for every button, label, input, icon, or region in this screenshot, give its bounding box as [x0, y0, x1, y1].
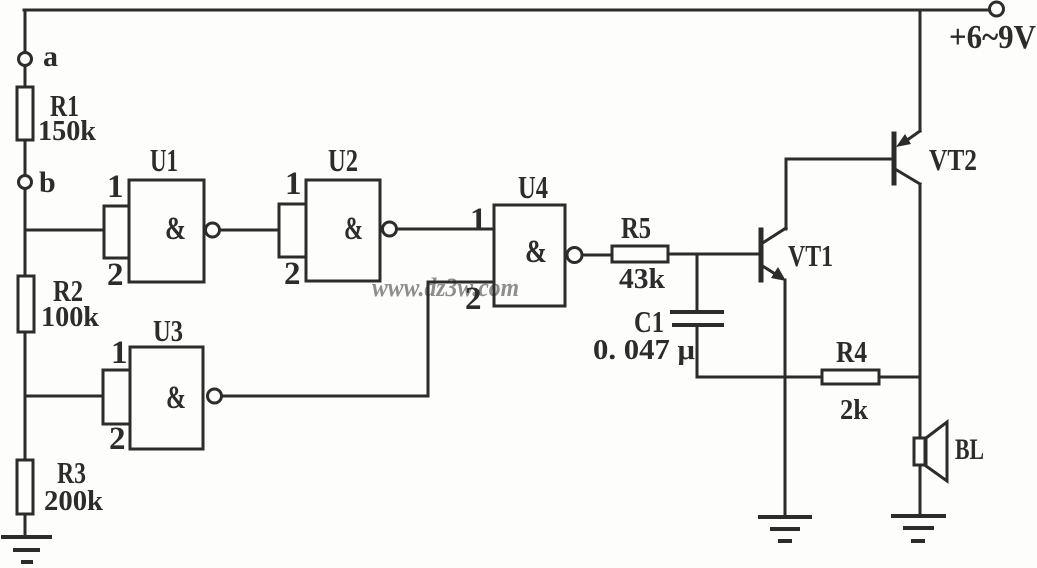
wire R5 to VT1 base: [668, 253, 759, 256]
gate U3 input block: [103, 370, 130, 424]
svg-text:&: &: [344, 211, 363, 247]
svg-text:2: 2: [109, 421, 126, 457]
svg-text:b: b: [39, 166, 56, 199]
resistor R4: [822, 370, 879, 384]
wire R3 to ground: [24, 514, 27, 537]
wire R2 to R3: [24, 332, 27, 460]
gate U2 body: [306, 180, 380, 281]
svg-text:2: 2: [284, 256, 301, 292]
resistor R2: [18, 276, 34, 332]
svg-text:2: 2: [107, 257, 124, 293]
gate U2 input block: [279, 204, 306, 257]
svg-text:2: 2: [465, 281, 482, 317]
svg-text:BL: BL: [955, 433, 984, 466]
gate U2 output bubble: [383, 222, 397, 236]
wire rail to U3 input: [25, 395, 103, 398]
svg-text:200k: 200k: [44, 486, 103, 517]
wire VT2 collector down: [919, 184, 922, 438]
svg-text:&: &: [525, 234, 547, 270]
wire BL to ground: [919, 465, 922, 516]
wire U3 output horizontal: [222, 395, 429, 398]
svg-text:VT1: VT1: [788, 238, 833, 273]
speaker BL: [914, 422, 947, 481]
gate U3 output bubble: [208, 389, 222, 403]
wire VT1 emitter to ground: [784, 280, 787, 517]
svg-text:U4: U4: [518, 169, 548, 205]
resistor R5: [612, 246, 668, 262]
wire C1 bottom vertical: [696, 325, 699, 377]
gate U1 input block: [104, 206, 129, 258]
wire rail to U1 input: [25, 229, 104, 232]
svg-text:R5: R5: [621, 210, 651, 245]
resistor R3: [17, 460, 33, 514]
transistor Q VT2: [894, 131, 920, 184]
wire top supply rail: [24, 9, 989, 12]
resistor R1: [17, 87, 33, 140]
power terminal +6~9V: [990, 2, 1004, 16]
wire VT1 collector to VT2 base: [786, 158, 893, 161]
wire U2 output to U4 pin 1: [397, 228, 495, 231]
svg-text:0. 047 μ: 0. 047 μ: [593, 334, 696, 366]
svg-text:&: &: [166, 380, 186, 416]
gate U4 output bubble: [567, 248, 582, 263]
ground VT1 emitter: [760, 517, 810, 541]
gate U3 body: [130, 347, 203, 449]
node a: [19, 53, 32, 66]
svg-text:1: 1: [285, 166, 302, 202]
svg-text:a: a: [43, 40, 58, 73]
wire U4 output to R5: [582, 254, 612, 257]
wire node b to R2: [24, 189, 27, 276]
ground BL: [893, 516, 944, 541]
svg-text:+6~9V: +6~9V: [949, 19, 1036, 56]
svg-text:&: &: [165, 211, 186, 247]
svg-text:150k: 150k: [38, 116, 96, 147]
gate U1 output bubble: [206, 223, 220, 237]
capacitor C1: [672, 312, 722, 325]
svg-text:100k: 100k: [41, 302, 99, 333]
svg-text:1: 1: [111, 335, 128, 371]
svg-text:R3: R3: [57, 455, 86, 490]
svg-text:VT2: VT2: [929, 142, 977, 177]
gate U4 body: [494, 205, 565, 306]
svg-text:43k: 43k: [619, 264, 665, 295]
wire U3 output vertical riser: [427, 282, 430, 396]
wire U4 pin 2: [428, 281, 494, 284]
svg-text:U2: U2: [328, 142, 358, 178]
svg-text:1: 1: [470, 202, 487, 238]
transistor Q VT1: [761, 228, 786, 281]
svg-text:2k: 2k: [840, 395, 868, 426]
node b: [19, 176, 32, 189]
gate U1 body: [129, 180, 204, 282]
wire U1 output to U2: [220, 229, 280, 232]
svg-text:U3: U3: [153, 313, 183, 348]
wire junction to C1 top: [696, 254, 699, 312]
wire left rail segment top: [24, 10, 27, 52]
wire VT1 collector vertical: [785, 159, 788, 229]
wire R1 to node b: [24, 140, 27, 175]
wire VT2 emitter to supply: [919, 10, 922, 131]
svg-text:R4: R4: [836, 334, 867, 369]
svg-text:1: 1: [107, 169, 124, 205]
ground left rail: [3, 537, 50, 562]
svg-text:www.dz3w.com: www.dz3w.com: [372, 273, 519, 302]
wire node a to R1: [24, 66, 27, 87]
svg-text:U1: U1: [150, 142, 178, 178]
wire C1 to VT2 collector horizontal: [697, 376, 920, 379]
